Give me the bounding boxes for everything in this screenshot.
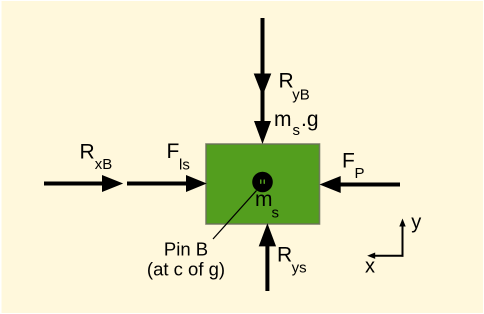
- label R_yB: [279, 69, 310, 103]
- label R_xB: [80, 141, 113, 173]
- svg-text:Pin B: Pin B: [164, 239, 208, 260]
- force arrow R_xB (rightward, left segment): [44, 175, 123, 192]
- force arrow R_yB (downward, upper segment): [254, 18, 272, 96]
- coordinate axes: y up: [399, 219, 405, 257]
- force arrow m_s.g (downward, lower segment onto block): [254, 96, 271, 144]
- mass block (slider body): [206, 144, 320, 224]
- label m_s (on block): [255, 188, 279, 222]
- label R_ys: [277, 244, 307, 277]
- svg-text:ls: ls: [179, 156, 190, 173]
- svg-text:F: F: [342, 149, 355, 172]
- svg-text:R: R: [277, 244, 292, 267]
- axis label x: [365, 256, 375, 278]
- label F_P: [342, 149, 365, 182]
- force arrow R_ys (upward, onto block bottom): [259, 223, 276, 291]
- label F_ls: [167, 140, 190, 173]
- svg-text:m: m: [274, 108, 292, 131]
- pin B (black circle at centre of gravity): [252, 172, 273, 193]
- svg-text:(at c of g): (at c of g): [147, 259, 225, 280]
- svg-text:x: x: [365, 256, 375, 278]
- label m_s.g: [274, 108, 319, 139]
- svg-text:s: s: [272, 205, 280, 222]
- svg-text:yB: yB: [292, 87, 310, 104]
- force arrow F_ls (rightward, onto block left face): [127, 175, 207, 192]
- svg-text:s: s: [293, 122, 301, 139]
- svg-text:P: P: [355, 165, 365, 182]
- svg-text:ys: ys: [292, 260, 307, 277]
- svg-text:y: y: [411, 212, 421, 234]
- axis label y: [411, 212, 421, 234]
- force arrow F_P (leftward, onto block right face): [320, 176, 401, 193]
- svg-text:.g: .g: [301, 108, 319, 131]
- svg-text:F: F: [167, 140, 180, 163]
- svg-text:m: m: [255, 188, 273, 211]
- svg-text:xB: xB: [95, 156, 113, 173]
- svg-text:R: R: [80, 141, 95, 164]
- label Pin B (at c of g): [147, 239, 225, 280]
- leader line from pin B to its label: [213, 191, 257, 240]
- coordinate axes: x left: [367, 253, 403, 259]
